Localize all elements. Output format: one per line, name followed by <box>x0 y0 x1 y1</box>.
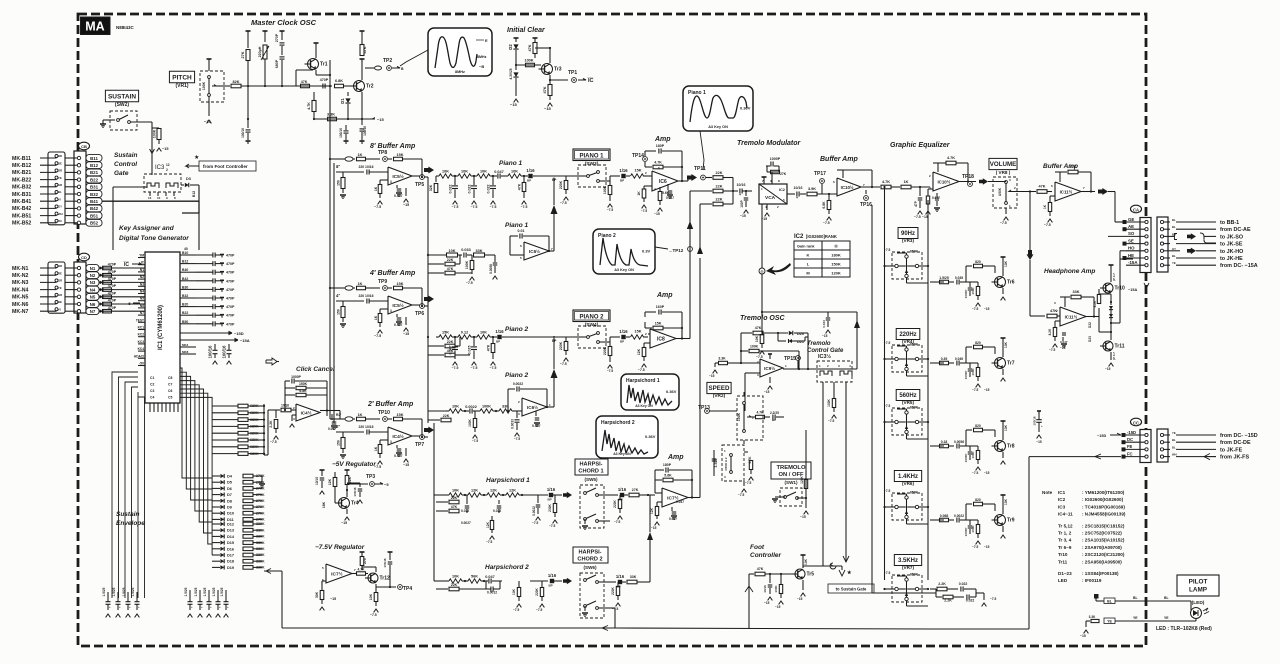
capacitor 100/16 (clock1) <box>247 119 249 128</box>
resistor 680K row 4 <box>212 425 238 427</box>
svg-text:-15D: -15D <box>1127 430 1136 435</box>
wire FC return <box>1029 456 1121 458</box>
diode D15 with 330K <box>212 542 220 544</box>
wire harpsi2 from rail <box>434 580 446 582</box>
VCA pin4 gnd <box>766 204 768 210</box>
svg-text:−15: −15 <box>403 332 409 336</box>
pin label B42 <box>86 205 102 212</box>
svg-text:0.022: 0.022 <box>449 185 453 194</box>
connector CC designator <box>1131 418 1142 426</box>
wire IC10 out <box>861 186 880 188</box>
ground stub ladder <box>261 476 263 482</box>
wire vca r to gate <box>762 311 857 313</box>
pin label N2 <box>86 272 99 279</box>
svg-text:100/16: 100/16 <box>339 128 343 138</box>
capacitor 100/16 reg75 <box>388 551 393 553</box>
svg-text:D3: D3 <box>186 177 191 181</box>
diode D10 with 270K <box>212 512 220 514</box>
svg-text:GY: GY <box>58 205 62 209</box>
svg-text:D15: D15 <box>227 541 234 545</box>
SPEED label box <box>707 382 731 393</box>
switch SW1 dashed box <box>780 488 802 506</box>
svg-text:N4: N4 <box>140 290 144 294</box>
pin label N7 <box>86 308 99 315</box>
svg-text:1000P: 1000P <box>964 371 968 380</box>
svg-text:Tr10: Tr10 <box>1058 552 1068 557</box>
svg-text:Control: Control <box>114 161 137 168</box>
svg-text:−5: −5 <box>384 482 389 487</box>
svg-text:VI: VI <box>58 197 61 201</box>
switch SW3 dashed box <box>578 165 606 187</box>
svg-text:YE: YE <box>1164 616 1169 620</box>
junction harpsi1 <box>502 494 504 496</box>
diode D14 with 330K <box>212 535 220 537</box>
svg-text:Piano 2: Piano 2 <box>505 372 529 379</box>
svg-text:B12: B12 <box>192 191 196 197</box>
VR4 wires <box>885 358 895 360</box>
svg-text:E: E <box>485 38 488 43</box>
svg-text:100K: 100K <box>827 398 831 406</box>
capacitor 1/16 BP piano2 <box>493 336 497 338</box>
svg-text:N6: N6 <box>90 302 96 307</box>
svg-text:BP: BP <box>552 178 557 182</box>
svg-text:BP: BP <box>620 179 624 183</box>
resistor 220K sw4 <box>609 342 611 346</box>
svg-text:Buffer Amp: Buffer Amp <box>820 156 858 163</box>
svg-text:: TC4016P(IG00169): : TC4016P(IG00169) <box>1082 504 1125 509</box>
click cancel feedback 1000P <box>285 380 290 382</box>
svg-text:470P: 470P <box>108 299 117 303</box>
capacitor 0.18 560Hz <box>930 445 944 447</box>
resistor 22K reg5 <box>345 469 350 471</box>
svg-text:220 10/16: 220 10/16 <box>358 165 373 169</box>
resistor 47K osc <box>741 332 752 334</box>
wire sw6 out <box>610 581 616 583</box>
svg-text:1/16: 1/16 <box>618 487 627 492</box>
svg-text:1.5/25: 1.5/25 <box>122 587 126 596</box>
svg-text:2.2K: 2.2K <box>944 599 952 603</box>
svg-text:470P: 470P <box>226 288 235 292</box>
svg-text:BR: BR <box>1172 232 1176 236</box>
svg-text:10K: 10K <box>755 335 759 342</box>
svg-text:8: 8 <box>174 196 176 200</box>
svg-text:4.7K: 4.7K <box>307 102 311 110</box>
svg-text:Tr7: Tr7 <box>1007 361 1015 367</box>
svg-text:Piano 2: Piano 2 <box>598 233 616 239</box>
IC3half gates <box>820 371 832 376</box>
junction piano2 <box>454 336 456 338</box>
IC11 feedback 47K <box>1059 172 1061 182</box>
svg-text:−15A: −15A <box>1128 288 1137 292</box>
switch SW4 <box>587 336 590 339</box>
capacitor 470P on N2 <box>103 273 112 277</box>
capacitor 160P amp2 <box>644 312 646 317</box>
wire Tr1 emitter <box>316 74 330 76</box>
svg-text:−7.5: −7.5 <box>374 465 381 469</box>
VR3 potentiometer <box>895 264 898 267</box>
svg-text:YM: YM <box>139 254 144 258</box>
svg-text:22K: 22K <box>447 340 454 344</box>
svg-text:B30: B30 <box>182 285 188 289</box>
svg-text:MK-N6: MK-N6 <box>12 302 29 308</box>
resistor 22K p2lpf in <box>428 419 440 421</box>
svg-text:100P: 100P <box>740 199 744 207</box>
svg-text:VOLUME: VOLUME <box>990 161 1016 168</box>
svg-text:D23: D23 <box>1088 336 1092 342</box>
PITCH label box <box>169 71 194 83</box>
svg-text:150K: 150K <box>299 382 308 386</box>
svg-text:BL: BL <box>1172 438 1176 442</box>
svg-text:Harpsichord 1: Harpsichord 1 <box>626 378 660 384</box>
capacitor 100/16 (clock3) <box>361 92 363 125</box>
svg-text:1K: 1K <box>374 186 378 191</box>
svg-text:KC2: KC2 <box>138 333 145 337</box>
svg-text:TP3: TP3 <box>366 474 375 480</box>
svg-text:from JK-FS: from JK-FS <box>1220 455 1249 461</box>
svg-text:1.5/25: 1.5/25 <box>939 276 949 280</box>
IC4 bias gnd <box>292 414 296 416</box>
svg-text:+: + <box>219 605 221 609</box>
sustain bus loop 3 <box>125 382 138 598</box>
svg-text:1000P: 1000P <box>964 528 968 537</box>
bus rail left A <box>329 86 331 419</box>
svg-text:470P: 470P <box>226 254 235 258</box>
capacitor 470P on N6 <box>103 302 112 306</box>
resistor 10K piano1 <box>505 175 508 177</box>
svg-text:BP: BP <box>552 339 557 343</box>
svg-text:12K: 12K <box>471 489 478 493</box>
resistor 100K foot <box>780 574 782 584</box>
resistor 47K h1 <box>436 510 448 512</box>
svg-text:: IF00119: : IF00119 <box>1082 578 1102 583</box>
svg-text:Tremolo OSC: Tremolo OSC <box>740 315 786 322</box>
svg-text:3.3K: 3.3K <box>718 357 726 361</box>
svg-text:−7.5: −7.5 <box>549 524 556 528</box>
resistor 150 8ft <box>342 172 344 177</box>
HARPSI-CHORD 1 label box <box>575 459 608 475</box>
svg-text:BP: BP <box>620 340 624 344</box>
resistor 4.7K amp1 <box>644 162 646 167</box>
svg-text:3: 3 <box>838 364 840 368</box>
svg-text:0.033: 0.033 <box>461 248 471 252</box>
svg-text:0.3V: 0.3V <box>642 249 651 254</box>
svg-text:BP: BP <box>527 179 531 183</box>
capacitor 0.022 piano1 <box>454 176 456 185</box>
capacitor 0.0056 560Hz <box>956 444 958 449</box>
svg-text:470P: 470P <box>226 322 235 326</box>
svg-text:10K: 10K <box>1004 260 1008 267</box>
svg-text:3.9K: 3.9K <box>808 187 816 191</box>
svg-text:12K: 12K <box>486 521 490 528</box>
svg-text:: 1SS84(IF00138): : 1SS84(IF00138) <box>1082 571 1119 576</box>
svg-text:IC2: IC2 <box>794 234 804 240</box>
capacitor 1.5/25 b5 <box>225 590 227 602</box>
svg-text:8′: 8′ <box>336 164 341 169</box>
svg-text:3: 3 <box>390 309 392 313</box>
svg-text:0.033: 0.033 <box>822 320 826 328</box>
flow arrow p2 resonance <box>553 378 555 407</box>
svg-text:−7.5: −7.5 <box>745 481 752 485</box>
op-amp IC4half clickcancel <box>296 404 320 421</box>
svg-text:6: 6 <box>1051 184 1053 188</box>
svg-text:B21: B21 <box>90 170 99 175</box>
svg-text:22K: 22K <box>451 496 458 500</box>
svg-text:FE: FE <box>1127 444 1133 449</box>
IC1 right pin B22 <box>180 314 196 316</box>
svg-text:N1: N1 <box>90 266 96 271</box>
svg-text:30K: 30K <box>315 591 319 598</box>
svg-text:B22: B22 <box>90 177 99 182</box>
svg-text:−15: −15 <box>341 521 347 525</box>
svg-text:22K: 22K <box>716 171 723 175</box>
svg-text:Tr8: Tr8 <box>1007 444 1015 450</box>
svg-text:WH: WH <box>58 212 63 216</box>
switch SW5 pole A <box>584 492 587 495</box>
wire sw1 down <box>805 498 807 508</box>
svg-text:9: 9 <box>166 196 168 200</box>
resistor 2.2K clickcancel <box>275 410 277 418</box>
scope master clock <box>428 28 492 76</box>
svg-text:N4: N4 <box>90 287 96 292</box>
to Sustain Gate tag <box>839 570 845 576</box>
svg-text:−7.5: −7.5 <box>560 201 567 205</box>
svg-text:MK4: MK4 <box>182 343 189 347</box>
svg-text:+: + <box>119 605 121 609</box>
svg-text:Graphic Equalizer: Graphic Equalizer <box>890 142 951 149</box>
flow arrow harpsi up <box>697 246 703 254</box>
resistor 12K harpsi1 <box>484 494 487 496</box>
svg-text:−15: −15 <box>510 102 518 107</box>
pin label B12 <box>86 162 102 169</box>
svg-text:IC3: IC3 <box>155 165 165 171</box>
junction piano2 <box>473 336 475 338</box>
svg-text:−7.5: −7.5 <box>738 493 745 497</box>
svg-text:D7: D7 <box>227 493 232 497</box>
svg-text:(SW2): (SW2) <box>115 102 130 108</box>
svg-text:0.01: 0.01 <box>518 229 525 233</box>
resistor 22K h2 <box>436 588 448 590</box>
svg-text:B41: B41 <box>90 199 99 204</box>
transistor Tr4 (-5V reg) <box>339 498 350 509</box>
svg-text:B40: B40 <box>182 268 188 272</box>
svg-text:100/16: 100/16 <box>383 558 387 568</box>
svg-text:1.5/25: 1.5/25 <box>102 587 106 596</box>
svg-text:12K: 12K <box>650 507 654 514</box>
scope Piano 2 inset <box>593 229 655 274</box>
switch SW4 dashed box <box>578 326 606 348</box>
svg-text:−7.5: −7.5 <box>607 369 614 373</box>
svg-text:A3 Key ON: A3 Key ON <box>614 268 634 272</box>
svg-text:10K: 10K <box>452 575 459 579</box>
svg-text:KC1: KC1 <box>138 326 145 330</box>
svg-text:2.2/25: 2.2/25 <box>770 411 779 415</box>
svg-text:Tremolo Modulator: Tremolo Modulator <box>737 140 802 147</box>
resistor 22K p1lpf <box>428 263 444 265</box>
svg-text:Amp: Amp <box>654 136 671 143</box>
svg-text:−7.5: −7.5 <box>466 281 473 285</box>
svg-text:GY: GY <box>1172 247 1176 251</box>
svg-text:10Δ6: 10Δ6 <box>281 404 289 408</box>
IC1 left pin N3 <box>138 285 145 287</box>
svg-text:−7.5: −7.5 <box>1000 221 1007 225</box>
wire eq sum out <box>959 181 976 183</box>
svg-text:B12: B12 <box>182 260 188 264</box>
capacitor 270P <box>280 30 285 32</box>
svg-text:100/16: 100/16 <box>363 126 367 136</box>
svg-text:D13: D13 <box>227 529 234 533</box>
svg-text:D12: D12 <box>227 523 234 527</box>
svg-text:2.2K: 2.2K <box>269 420 273 428</box>
svg-text:−15: −15 <box>651 526 657 530</box>
capacitor 470P on N3 <box>103 281 112 285</box>
svg-text:: 2SC752(IC07522): : 2SC752(IC07522) <box>1082 531 1122 536</box>
svg-text:0.022: 0.022 <box>487 185 491 194</box>
svg-text:−15: −15 <box>984 545 990 549</box>
svg-text:47K: 47K <box>518 183 522 190</box>
svg-text:(SW3): (SW3) <box>585 161 599 167</box>
svg-text:BE: BE <box>58 300 62 304</box>
wire out 2ft <box>424 436 428 438</box>
CA out to JK-SO <box>1164 235 1171 237</box>
wire sw6 bottom return <box>610 607 615 609</box>
resistor 3.3K led <box>1086 620 1090 622</box>
svg-text:IC10½: IC10½ <box>841 185 854 190</box>
op-amp IC4&#189; 2ft <box>388 427 412 445</box>
inductor 220uH variable <box>263 30 268 32</box>
sustain bus loop 4 <box>132 387 139 598</box>
eq left rail <box>884 187 886 580</box>
test point TP13 <box>705 409 710 414</box>
capacitor 470P on B12 <box>212 261 214 266</box>
svg-text:1/16: 1/16 <box>616 574 625 579</box>
svg-text:to Sustain Gate: to Sustain Gate <box>836 587 867 592</box>
sustain bus right rail <box>263 404 265 455</box>
svg-text:CD: CD <box>81 255 87 260</box>
svg-text:22K: 22K <box>716 185 723 189</box>
svg-text:MK-B21: MK-B21 <box>12 170 31 176</box>
svg-text:8: 8 <box>778 179 780 183</box>
resistor 1K eq in <box>901 185 911 189</box>
connector strip CC left <box>1140 430 1151 463</box>
svg-text:Envelope: Envelope <box>116 520 145 527</box>
svg-text:220 10/16: 220 10/16 <box>358 294 373 298</box>
svg-text:−7.5: −7.5 <box>471 366 478 370</box>
svg-text:D6: D6 <box>227 487 232 491</box>
svg-text:SO: SO <box>1128 231 1135 236</box>
svg-text:470P: 470P <box>108 270 117 274</box>
svg-text:−7.5: −7.5 <box>990 597 997 601</box>
svg-text:5: 5 <box>520 256 522 260</box>
svg-text:1.5/25: 1.5/25 <box>203 587 207 596</box>
svg-text:100K: 100K <box>971 287 975 295</box>
svg-text:KC4: KC4 <box>138 347 145 351</box>
svg-text:D1: D1 <box>340 98 345 104</box>
svg-text:−7.5: −7.5 <box>972 471 979 475</box>
svg-text:to JK-HO: to JK-HO <box>1220 249 1243 255</box>
capacitor 100/16 reg5 <box>359 483 361 487</box>
svg-text:Foot: Foot <box>750 544 765 551</box>
switch SW2 <box>100 123 106 125</box>
svg-text:3: 3 <box>1054 301 1056 305</box>
svg-text:0.015: 0.015 <box>468 346 472 355</box>
diode D5 with 270K <box>212 481 220 483</box>
svg-text:D18: D18 <box>227 560 234 564</box>
connector CD designator <box>79 253 90 261</box>
wire h1 to cap <box>522 494 548 496</box>
IC9 pin4 stub <box>769 377 771 383</box>
svg-text:B31: B31 <box>90 185 99 190</box>
op-amp IC10half eq sum <box>933 172 959 191</box>
resistor 30K reg75 <box>322 580 326 582</box>
resistor 4.7K post IC10 <box>881 185 891 189</box>
svg-text:1.5/25: 1.5/25 <box>131 587 135 596</box>
CA pin SE <box>1123 242 1127 246</box>
svg-text:DC: DC <box>1127 437 1133 442</box>
VCA IC2 block <box>759 184 787 204</box>
capacitor 0.0027 h1c <box>466 495 468 500</box>
svg-text:5: 5 <box>322 566 324 570</box>
1.4KHz label box <box>894 471 921 482</box>
resistor 270 reg75 <box>360 551 365 553</box>
svg-text:from DC- −15A: from DC- −15A <box>1220 263 1258 269</box>
svg-text:15K: 15K <box>442 331 449 335</box>
svg-text:−7.5: −7.5 <box>374 205 381 209</box>
resistor 22K mix1 <box>706 177 712 179</box>
resistor 820 1.4KHz <box>966 503 972 505</box>
svg-text:8′ Buffer Amp: 8′ Buffer Amp <box>370 143 416 150</box>
resistor 120K sw1 <box>805 471 807 475</box>
svg-text:−7.5: −7.5 <box>972 545 979 549</box>
scope Piano 1 inset <box>683 86 753 131</box>
junction harpsi1 <box>483 494 485 496</box>
svg-text:MK-B22: MK-B22 <box>12 177 31 183</box>
svg-text:10K: 10K <box>804 558 808 565</box>
flow arrow down hp <box>1029 192 1031 251</box>
resistor 22K mix3 <box>700 203 712 205</box>
svg-text:10K: 10K <box>511 170 518 174</box>
junction piano1 <box>523 175 525 177</box>
svg-text:B12: B12 <box>90 163 99 168</box>
svg-text:3: 3 <box>518 412 520 416</box>
svg-text:22K: 22K <box>443 414 450 418</box>
svg-text:Tr9: Tr9 <box>1007 518 1015 524</box>
svg-text:Master Clock OSC: Master Clock OSC <box>251 18 317 27</box>
resistor 150 4ft <box>342 301 344 306</box>
svg-text:D16: D16 <box>227 547 234 551</box>
resistor 47K piano1 <box>523 176 525 182</box>
capacitor 470P on B20 <box>212 304 214 309</box>
svg-text:IC1 (CYM61200): IC1 (CYM61200) <box>158 305 164 350</box>
svg-text:120K: 120K <box>800 475 804 483</box>
flow arrow 4ft <box>424 296 434 303</box>
svg-text:−7.5: −7.5 <box>486 540 493 544</box>
svg-text:680P: 680P <box>275 59 279 68</box>
svg-text:47K: 47K <box>757 567 764 571</box>
CA out from DC- &#8722;15A <box>1164 264 1171 266</box>
wire p1 lpf out <box>549 250 554 252</box>
flow arrow 2ft <box>424 427 434 434</box>
svg-text:C5: C5 <box>168 396 172 400</box>
svg-text:5.6K: 5.6K <box>664 474 672 478</box>
svg-text:18K: 18K <box>322 501 326 508</box>
IC1 left pin N6 <box>138 307 145 309</box>
switch SW2 dashed box <box>110 111 137 130</box>
svg-text:GR: GR <box>58 293 62 297</box>
connector strip CA left <box>1140 218 1151 273</box>
svg-text:®: ® <box>761 269 764 274</box>
resistor 820 220Hz <box>966 346 972 348</box>
resistor 32K piano1 <box>435 176 437 182</box>
